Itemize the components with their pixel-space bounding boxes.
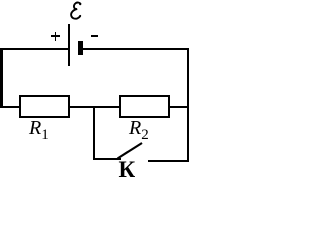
wire: right rail vertical [187,48,190,162]
wire: middle lead from R2 to right rail [168,106,189,108]
label K [119,158,136,181]
node: junction vertical wire down to switch branch [93,106,95,160]
wire: top rail left segment (left edge to battery + plate) [0,48,69,50]
wire: bottom right segment from switch contact to right rail [148,160,189,162]
wire: middle lead from R1 to R2 through node [68,106,121,108]
battery E long plate (+) [68,24,70,66]
wire: middle lead from left rail to R1 [0,106,21,108]
label R1 [29,118,49,143]
switch K blade (open) [0,0,189,181]
plus sign [51,35,60,37]
battery E thick plate (-) [78,41,83,55]
wire: bottom left segment to switch contact [93,158,121,160]
label R2 [129,118,149,143]
wire: left rail vertical [0,48,3,109]
label EMF script E [67,0,87,22]
minus sign [91,35,98,37]
resistor R2 [119,95,170,118]
resistor R1 [19,95,70,118]
wire: top rail right segment (battery - plate to right edge) [80,48,189,50]
